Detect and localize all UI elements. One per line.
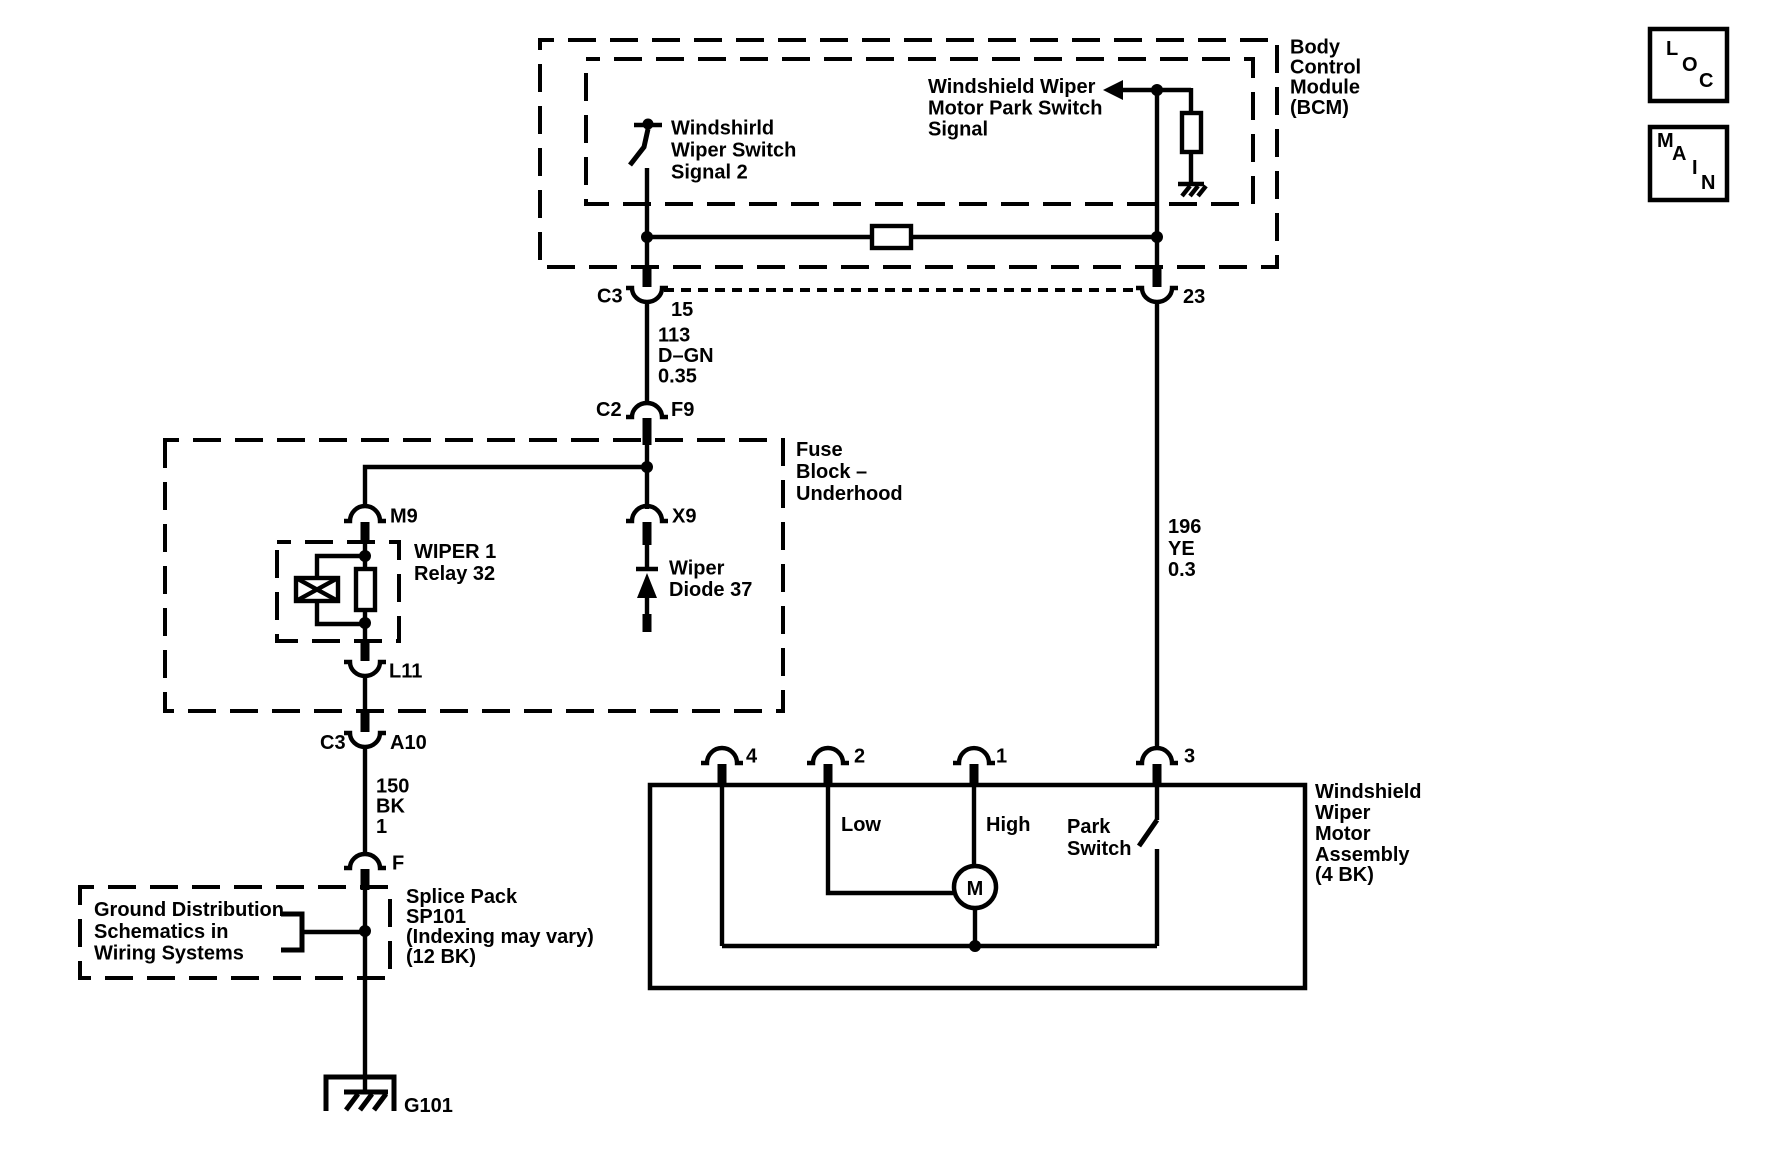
svg-text:SP101: SP101 xyxy=(406,906,466,928)
arrow to park switch signal xyxy=(1103,80,1191,100)
connector M9 xyxy=(344,506,386,521)
node motor bottom junction xyxy=(969,940,981,952)
connector pin 23 xyxy=(1136,288,1178,302)
svg-text:Schematics in: Schematics in xyxy=(94,921,229,943)
connector C2 pin F9 xyxy=(626,403,668,417)
svg-text:C2: C2 xyxy=(596,399,622,421)
wire stub F9 xyxy=(643,418,652,445)
wire stub X9 xyxy=(643,522,652,545)
svg-text:4: 4 xyxy=(746,746,758,768)
svg-text:Switch: Switch xyxy=(1067,838,1131,860)
svg-text:Signal 2: Signal 2 xyxy=(671,162,748,184)
wire to internal resistor xyxy=(1189,88,1193,113)
svg-text:Windshield: Windshield xyxy=(1315,781,1421,803)
wire horizontal BCM bus xyxy=(647,235,872,239)
svg-text:Signal: Signal xyxy=(928,119,988,141)
svg-text:Underhood: Underhood xyxy=(796,483,903,505)
park switch blade xyxy=(1139,820,1157,846)
svg-text:Relay 32: Relay 32 xyxy=(414,563,495,585)
wire relay coil branch top xyxy=(317,556,365,578)
wire relay coil branch bottom xyxy=(317,601,365,624)
wire below diode xyxy=(645,598,649,618)
resistor internal BCM xyxy=(1182,113,1201,152)
svg-text:Motor Park Switch: Motor Park Switch xyxy=(928,98,1102,120)
svg-text:Windshirld: Windshirld xyxy=(671,118,774,140)
wire stub pin 1 xyxy=(970,764,979,786)
label Ground Distribution Schematics in Wiring Systems xyxy=(94,899,284,965)
motor M xyxy=(954,866,996,908)
svg-text:Low: Low xyxy=(841,814,881,836)
svg-text:Module: Module xyxy=(1290,77,1360,99)
svg-text:Wiper: Wiper xyxy=(669,558,725,580)
wire stub pin 3 xyxy=(1153,764,1162,786)
svg-text:C3: C3 xyxy=(597,286,623,308)
node splice SP101 xyxy=(359,925,371,937)
connector pin 4 xyxy=(701,748,743,763)
connector C3 pin 15 xyxy=(626,288,668,302)
svg-text:F: F xyxy=(392,853,404,875)
svg-text:N: N xyxy=(1701,172,1715,194)
connector pin 3 xyxy=(1136,748,1178,763)
wire resistor bottom xyxy=(363,610,367,644)
svg-text:A: A xyxy=(1672,143,1686,165)
svg-text:L11: L11 xyxy=(389,661,422,683)
svg-text:(4 BK): (4 BK) xyxy=(1315,864,1374,886)
label Body Control Module (BCM) xyxy=(1290,37,1361,120)
BCM outer dashed box xyxy=(540,40,1277,267)
wire L11 down xyxy=(363,675,367,714)
ground BCM internal xyxy=(1178,184,1206,196)
svg-text:0.35: 0.35 xyxy=(658,366,697,388)
wire F9 to junction xyxy=(645,443,649,509)
svg-text:M9: M9 xyxy=(390,506,418,528)
wire stub F xyxy=(361,869,370,890)
svg-text:X9: X9 xyxy=(672,506,696,528)
wire pin 4 down xyxy=(720,785,724,946)
Ground Distribution dashed box xyxy=(80,887,390,978)
svg-text:23: 23 xyxy=(1183,286,1205,308)
wire stub pin 2 xyxy=(824,764,833,786)
Fuse Block dashed box xyxy=(165,440,783,711)
relay WIPER 1 dashed box xyxy=(277,542,399,641)
ground G101 xyxy=(326,1077,394,1111)
connector pin 2 xyxy=(807,748,849,763)
relay coil box xyxy=(296,578,338,601)
label Park Switch xyxy=(1067,816,1131,860)
wire pin 2 to motor xyxy=(828,785,956,893)
svg-text:196: 196 xyxy=(1168,516,1201,538)
label wire 150 BK 1 xyxy=(376,776,409,839)
connector F xyxy=(344,854,386,868)
svg-text:Block –: Block – xyxy=(796,461,867,483)
label WIPER 1 Relay 32 xyxy=(414,541,496,585)
wire bottom rail xyxy=(722,944,1157,948)
svg-text:1: 1 xyxy=(376,816,387,838)
svg-text:(BCM): (BCM) xyxy=(1290,97,1349,119)
Windshield Wiper Motor Assembly box xyxy=(650,785,1305,988)
wire resistor to ground xyxy=(1189,152,1193,183)
svg-text:Diode 37: Diode 37 xyxy=(669,579,752,601)
svg-text:Body: Body xyxy=(1290,37,1341,59)
svg-text:BK: BK xyxy=(376,796,405,818)
svg-text:150: 150 xyxy=(376,776,409,798)
MAIN reference box xyxy=(1650,127,1727,200)
resistor relay xyxy=(356,569,375,610)
wire 113 D-GN xyxy=(645,301,649,404)
svg-text:G101: G101 xyxy=(404,1095,453,1117)
wire M9 to relay xyxy=(363,542,367,569)
svg-text:(12 BK): (12 BK) xyxy=(406,946,476,968)
svg-text:1: 1 xyxy=(996,746,1007,768)
wire park switch top xyxy=(1155,785,1159,820)
svg-text:15: 15 xyxy=(671,299,693,321)
label Windshirld Wiper Switch Signal 2 xyxy=(671,118,796,184)
svg-text:Fuse: Fuse xyxy=(796,439,843,461)
node relay top junction xyxy=(359,550,371,562)
svg-text:A10: A10 xyxy=(390,732,427,754)
node junction left xyxy=(641,231,653,243)
svg-text:Ground Distribution: Ground Distribution xyxy=(94,899,284,921)
svg-text:Wiring Systems: Wiring Systems xyxy=(94,943,244,965)
wire bus right xyxy=(911,235,1157,239)
svg-text:M: M xyxy=(967,878,984,900)
connector X9 xyxy=(626,506,668,521)
wire stub diode end xyxy=(643,614,652,632)
svg-text:0.3: 0.3 xyxy=(1168,559,1196,581)
wire stub L11 xyxy=(361,642,370,661)
wire right vertical xyxy=(1155,90,1159,270)
node junction fuse bus xyxy=(641,461,653,473)
wire X9 to diode xyxy=(645,543,649,569)
label Wiper Diode 37 xyxy=(669,558,752,602)
svg-text:Wiper Switch: Wiper Switch xyxy=(671,140,796,162)
svg-text:YE: YE xyxy=(1168,538,1195,560)
wire motor down xyxy=(973,908,977,946)
svg-text:(Indexing may vary): (Indexing may vary) xyxy=(406,926,594,948)
BCM inner dashed box xyxy=(586,59,1253,204)
wire stub pin 4 xyxy=(718,764,727,786)
svg-text:Assembly: Assembly xyxy=(1315,844,1410,866)
node junction right xyxy=(1151,231,1163,243)
wire 196 YE xyxy=(1155,301,1159,748)
wire pin 1 to motor xyxy=(972,785,976,867)
svg-text:High: High xyxy=(986,814,1030,836)
bracket reference xyxy=(281,914,302,950)
svg-text:F9: F9 xyxy=(671,399,694,421)
svg-text:C: C xyxy=(1699,70,1713,92)
svg-text:Control: Control xyxy=(1290,57,1361,79)
svg-text:Motor: Motor xyxy=(1315,823,1371,845)
svg-text:I: I xyxy=(1692,157,1698,179)
label Windshield Wiper Motor Assembly (4 BK) xyxy=(1315,781,1421,886)
node junction at arrow xyxy=(1151,84,1163,96)
wire to splice xyxy=(363,888,367,1092)
connector C3 pin A10 xyxy=(344,733,386,747)
diode Wiper Diode 37 xyxy=(636,569,658,598)
svg-text:D–GN: D–GN xyxy=(658,345,714,367)
connector L11 xyxy=(344,662,386,676)
resistor in BCM bus xyxy=(872,226,911,248)
LOC reference box xyxy=(1650,29,1727,101)
wire stub 23 xyxy=(1153,267,1162,287)
label wire 196 YE 0.3 xyxy=(1168,516,1201,581)
connector dotted tie line xyxy=(664,288,1140,292)
wire bracket to splice xyxy=(302,930,365,934)
svg-text:C3: C3 xyxy=(320,732,346,754)
wire stub A10 xyxy=(361,712,370,732)
wire park switch bottom xyxy=(1155,849,1159,946)
svg-text:WIPER 1: WIPER 1 xyxy=(414,541,496,563)
label Splice Pack SP101 xyxy=(406,886,594,968)
svg-text:Park: Park xyxy=(1067,816,1111,838)
label Fuse Block Underhood xyxy=(796,439,903,505)
svg-text:3: 3 xyxy=(1184,746,1195,768)
switch Windshield Wiper Switch Signal 2 xyxy=(630,119,662,166)
svg-text:O: O xyxy=(1682,54,1698,76)
svg-text:Splice Pack: Splice Pack xyxy=(406,886,518,908)
label wire 113 D-GN 0.35 xyxy=(658,325,714,388)
svg-text:Wiper: Wiper xyxy=(1315,802,1371,824)
svg-text:2: 2 xyxy=(854,746,865,768)
wire stub M9 xyxy=(361,522,370,544)
wire switch down to junction xyxy=(645,168,649,270)
connector pin 1 xyxy=(953,748,995,763)
label Windshield Wiper Motor Park Switch Signal xyxy=(928,76,1102,141)
wire fuse bus horizontal xyxy=(365,467,647,507)
wire stub C3-15 xyxy=(643,267,652,287)
svg-text:L: L xyxy=(1666,38,1678,60)
svg-text:Windshield Wiper: Windshield Wiper xyxy=(928,76,1096,98)
node relay bottom junction xyxy=(359,617,371,629)
wire 150 BK xyxy=(363,746,367,855)
svg-text:113: 113 xyxy=(658,325,690,347)
